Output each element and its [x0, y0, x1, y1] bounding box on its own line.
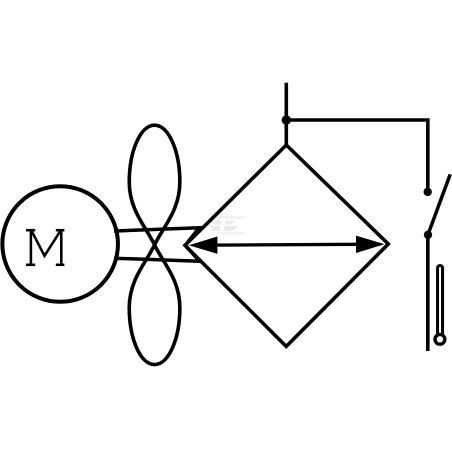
wire below switch: [426, 235, 430, 351]
right arrowhead: [356, 236, 385, 253]
thermometer bulb: [435, 334, 445, 344]
shaft coupling upper prong: [114, 228, 199, 246]
diamond air-flow symbol: [185, 145, 388, 346]
propeller fan blades: [129, 125, 180, 364]
motor M1 circle: [2, 186, 118, 302]
watermark logo: [211, 216, 244, 234]
shaft coupling lower prong: [114, 245, 199, 261]
supply wire stub: [284, 83, 288, 145]
double arrow line: [214, 243, 359, 247]
switch top terminal: [424, 188, 432, 196]
junction node: [282, 115, 291, 124]
motor label M: [26, 229, 64, 266]
wire to switch: [286, 120, 428, 188]
switch bottom terminal: [424, 231, 432, 239]
thermometer stem: [438, 266, 443, 336]
switch blade: [428, 174, 450, 234]
left arrowhead: [189, 237, 218, 254]
